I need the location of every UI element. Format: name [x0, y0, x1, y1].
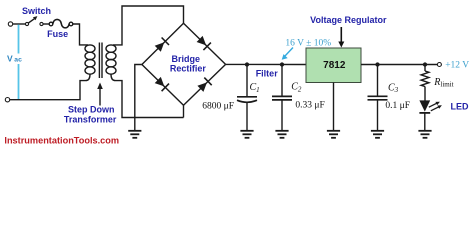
terminal bottom-left	[5, 98, 9, 102]
capacitor C3	[368, 65, 388, 131]
capacitor C2	[272, 65, 292, 131]
svg-text:+12 V: +12 V	[445, 61, 469, 71]
wire regulator output rail	[361, 64, 437, 66]
ground (regulator)	[327, 131, 340, 138]
svg-text:V: V	[7, 54, 13, 64]
svg-text:0.33 μF: 0.33 μF	[295, 101, 324, 111]
arrow (black) pointing to regulator	[338, 27, 344, 48]
wire switch to fuse	[43, 23, 49, 25]
node C2	[280, 62, 284, 66]
svg-text:0.1 μF: 0.1 μF	[385, 101, 410, 111]
svg-text:Filter: Filter	[256, 68, 279, 78]
svg-text:Switch: Switch	[22, 6, 51, 16]
wire bridge right corner to regulator	[226, 63, 306, 65]
capacitor C1	[237, 65, 257, 131]
svg-text:Transformer: Transformer	[64, 115, 117, 125]
wire bridge bottom stub	[183, 105, 185, 117]
wire secondary top to bridge top corner	[113, 6, 184, 45]
terminal top-left	[8, 22, 12, 26]
ground (bridge)	[128, 118, 141, 138]
secondary winding	[106, 45, 116, 74]
svg-text:6800 μF: 6800 μF	[202, 101, 234, 111]
svg-text:Step Down: Step Down	[68, 105, 115, 115]
svg-text:InstrumentationTools.com: InstrumentationTools.com	[4, 136, 119, 146]
terminal +12V	[437, 63, 441, 67]
bridge rectifier diamond	[142, 23, 226, 105]
wire top rail to switch	[13, 23, 26, 25]
primary winding	[85, 45, 95, 74]
svg-text:Fuse: Fuse	[47, 29, 68, 39]
svg-text:Voltage Regulator: Voltage Regulator	[310, 15, 387, 25]
wire secondary bottom to bottom rail	[111, 74, 184, 117]
svg-text:7812: 7812	[323, 60, 346, 71]
voltage regulator U1 7812	[306, 48, 361, 83]
node C1	[245, 62, 249, 66]
diode D4 (bottom-right edge, points to right corner)	[197, 78, 211, 92]
node C3	[375, 62, 379, 66]
svg-text:ac: ac	[14, 57, 22, 64]
transformer T1	[85, 43, 116, 106]
svg-text:LED: LED	[451, 102, 470, 112]
ground (C2)	[275, 131, 288, 138]
arrow to C2 node (cyan)	[282, 48, 293, 60]
resistor Rlimit	[421, 65, 429, 101]
pointer arrow	[99, 87, 101, 106]
svg-text:16 V ± 10%: 16 V ± 10%	[285, 38, 331, 48]
LED D1	[419, 100, 442, 130]
wire fuse to transformer primary top	[73, 24, 88, 45]
regulator ground stem	[333, 83, 335, 131]
ground (C3)	[371, 131, 384, 138]
ground (C1)	[240, 131, 253, 138]
wire transformer primary bottom to terminal	[10, 74, 90, 100]
diode D2 (top-right edge, points to right corner)	[197, 36, 211, 50]
Vac source line (cyan)	[18, 25, 20, 54]
ground (LED)	[418, 131, 431, 138]
core	[98, 43, 100, 79]
svg-text:Bridge: Bridge	[172, 54, 201, 64]
fuse F1	[49, 19, 73, 27]
wire bridge left corner to ground	[135, 65, 142, 118]
diode D1 (left-top edge, points to top corner)	[155, 38, 169, 52]
node LED branch	[423, 62, 427, 66]
diode D3 (left-bottom edge, points to bottom corner)	[155, 77, 169, 91]
switch S1	[25, 16, 43, 26]
svg-text:Rectifier: Rectifier	[170, 64, 207, 74]
emission arrows	[429, 103, 437, 107]
